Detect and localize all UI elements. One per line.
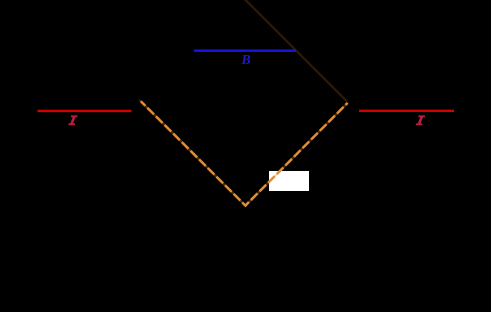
wire I left (red current line) <box>38 110 132 112</box>
node A (white label box) <box>269 171 309 191</box>
wire (orange dashed V path) <box>141 101 348 205</box>
node I label left <box>68 115 77 125</box>
wire (orange V underlay, dim) <box>141 101 348 205</box>
wire (faint extension ray) <box>244 0 348 102</box>
wire B (blue field line) <box>194 50 296 52</box>
wire I right (red current line) <box>359 110 454 112</box>
node I label right <box>416 115 425 125</box>
svg-text:B: B <box>240 53 250 68</box>
wire (dark tip at left arm start) <box>139 100 142 103</box>
